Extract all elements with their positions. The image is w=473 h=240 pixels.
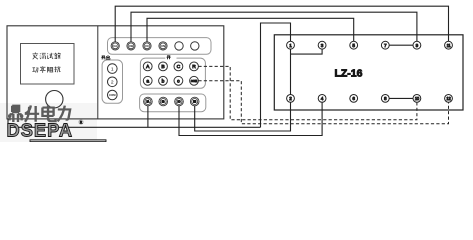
svg-text:IB: IB <box>162 100 165 104</box>
input b <box>159 76 168 85</box>
svg-text:8: 8 <box>384 96 387 101</box>
svg-text:9: 9 <box>416 43 419 48</box>
wire UC to terminal 5 <box>147 18 354 42</box>
jumper terminal 8 to 10 <box>389 97 413 99</box>
watermark small caption <box>30 140 106 142</box>
svg-text:b: b <box>162 79 165 85</box>
LZ-16 terminal 8 <box>381 95 389 103</box>
input COM <box>190 76 199 85</box>
output contact COM <box>108 90 118 100</box>
svg-text:COM: COM <box>191 79 198 83</box>
jumper terminal 7 to 9 <box>389 44 413 46</box>
wire IA bottom bus to chassis stub <box>8 119 261 127</box>
input c <box>174 76 183 85</box>
svg-text:R: R <box>192 64 196 70</box>
svg-text:2: 2 <box>289 96 292 101</box>
LZ-16 terminal 2 <box>287 95 295 103</box>
svg-text:COM: COM <box>109 93 116 97</box>
binary output group rect <box>102 60 122 103</box>
svg-text:C: C <box>177 64 181 70</box>
label 开出 <box>101 55 110 59</box>
terminal IB <box>159 97 168 106</box>
svg-text:4: 4 <box>321 96 324 101</box>
svg-text:DSEPA: DSEPA <box>7 119 74 140</box>
input A <box>143 62 152 71</box>
text 交流试验 <box>33 52 61 59</box>
svg-text:3: 3 <box>321 43 324 48</box>
watermark background wash <box>0 103 97 142</box>
output contact 1 <box>108 64 118 74</box>
LZ-16 terminal 5 <box>350 41 358 49</box>
svg-text:B: B <box>161 64 164 70</box>
terminal IC <box>175 97 184 106</box>
LZ-16 terminal 12 <box>445 95 453 103</box>
wire terminal 1 top loop to bottom bus <box>261 23 291 127</box>
current output group rect <box>140 94 206 112</box>
wire UA to terminal 11 <box>115 6 448 42</box>
input a <box>143 76 152 85</box>
terminal UC <box>143 42 151 50</box>
knob <box>46 91 63 108</box>
LZ-16 terminal 3 <box>318 41 326 49</box>
terminal UA <box>111 42 119 50</box>
svg-text:IN: IN <box>193 100 196 104</box>
spare voltage terminal 2 <box>191 42 199 50</box>
tester device enclosure <box>7 26 224 119</box>
terminal UB <box>127 42 135 50</box>
svg-text:1: 1 <box>289 43 292 48</box>
terminal IA <box>144 97 153 106</box>
display box 交流试验/功率阻抗 <box>21 44 75 85</box>
LZ-16 terminal 7 <box>381 41 389 49</box>
svg-text:5: 5 <box>352 43 355 48</box>
dashed wire R to terminal 10 <box>198 66 417 119</box>
label 开入 <box>165 55 176 60</box>
jumper branch to terminal 3 <box>291 49 323 54</box>
text 功率阻抗 <box>32 66 60 73</box>
terminal UN <box>159 42 167 50</box>
svg-text:2: 2 <box>111 80 114 86</box>
terminal IN <box>190 97 199 106</box>
spare voltage terminal 1 <box>175 42 183 50</box>
input C <box>174 62 183 71</box>
watermark 鼎升电力 <box>8 105 70 122</box>
svg-text:LZ-16: LZ-16 <box>334 68 362 80</box>
dashed wire COM to terminal 12 <box>198 81 448 124</box>
svg-text:UN: UN <box>161 44 165 48</box>
binary input group rect <box>140 58 205 88</box>
LZ-16 box <box>274 35 463 110</box>
svg-text:1: 1 <box>111 66 114 72</box>
svg-text:6: 6 <box>352 96 355 101</box>
svg-text:UB: UB <box>129 44 133 48</box>
LZ-16 terminal 11 <box>445 41 453 49</box>
jumper terminal 1 to terminal 2 <box>290 49 292 94</box>
input R <box>190 62 199 71</box>
LZ-16 terminal 1 <box>287 41 295 49</box>
watermark registered mark <box>79 120 84 125</box>
svg-text:a: a <box>146 80 149 85</box>
LZ-16 terminal 10 <box>413 95 421 103</box>
output contact 2 <box>108 77 118 87</box>
wire IC to terminal 4 <box>179 102 322 135</box>
wire IA drop <box>147 106 149 128</box>
panel divider <box>97 26 99 119</box>
wire IN to terminal 2 <box>195 102 291 131</box>
input B <box>159 62 168 71</box>
LZ-16 terminal 9 <box>413 41 421 49</box>
LZ-16 terminal 6 <box>350 95 358 103</box>
LZ-16 terminal 4 <box>318 95 326 103</box>
svg-text:7: 7 <box>384 43 387 48</box>
voltage output group rect <box>108 38 212 55</box>
wire UB to terminal 9 <box>131 12 417 42</box>
